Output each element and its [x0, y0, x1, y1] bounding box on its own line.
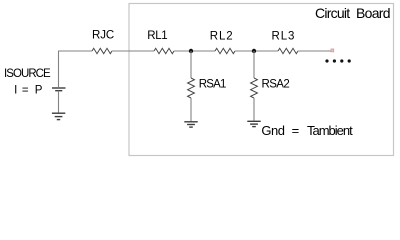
wire: ISOURCE to ground: [58, 91, 60, 113]
wire: ISOURCE branch down from main net: [58, 51, 60, 88]
wire: RSA1 to ground: [190, 98, 192, 121]
svg-text:RL1: RL1: [147, 30, 167, 42]
ground for RSA1: [184, 122, 197, 127]
continuation dots: [325, 59, 350, 62]
wire: RSA1 branch down from node: [190, 51, 192, 78]
node junction RSA2: [252, 49, 256, 53]
ground for RSA2: [247, 121, 260, 126]
wire: RSA2 branch down from node: [253, 51, 255, 78]
svg-text:RSA1: RSA1: [199, 79, 226, 91]
resistor RL3: [278, 48, 298, 53]
svg-text:ISOURCE: ISOURCE: [4, 68, 51, 80]
resistor RL2: [215, 48, 235, 53]
wire: main net from ISOURCE corner to RJC: [59, 50, 93, 52]
wire: RJC to RL1: [112, 50, 154, 52]
node junction RSA1: [189, 49, 193, 53]
svg-text:RL2: RL2: [210, 30, 234, 42]
wire: RL2 to RL3: [235, 50, 278, 52]
svg-text:RL3: RL3: [272, 30, 296, 42]
current source ISOURCE cell symbol short plate: [55, 90, 62, 92]
resistor RJC: [92, 48, 112, 53]
ground for ISOURCE: [52, 113, 65, 119]
open terminal pin marker: [331, 49, 334, 52]
resistor RSA1: [188, 78, 195, 98]
circuit board boundary box: [129, 4, 394, 156]
current source ISOURCE cell symbol long plate: [52, 87, 66, 89]
svg-text:Gnd=Tambient: Gnd=Tambient: [261, 123, 353, 138]
resistor RSA2: [251, 78, 258, 98]
wire: RSA2 to ground: [253, 98, 255, 121]
svg-text:RJC: RJC: [92, 29, 114, 41]
wire: RL3 to open terminal: [298, 50, 331, 52]
wire: RL1 to RL2: [174, 50, 215, 52]
svg-text:RSA2: RSA2: [262, 79, 290, 91]
resistor RL1: [154, 48, 174, 53]
